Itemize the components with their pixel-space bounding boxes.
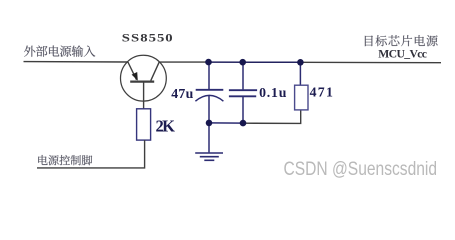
svg-text:MCU_Vcc: MCU_Vcc (378, 48, 426, 61)
svg-text:2K: 2K (156, 116, 176, 135)
svg-text:0.1u: 0.1u (259, 85, 287, 100)
svg-text:CSDN @Suenscsdnid: CSDN @Suenscsdnid (284, 157, 438, 179)
svg-text:47u: 47u (171, 86, 194, 101)
svg-text:471: 471 (310, 85, 335, 100)
svg-text:SS8550: SS8550 (122, 31, 174, 44)
